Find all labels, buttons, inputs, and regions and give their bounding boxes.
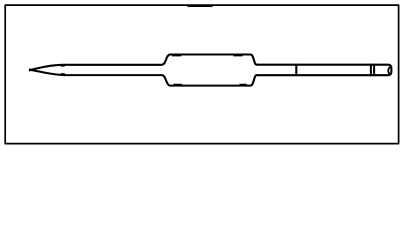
tick marks at cone/shaft junction bbox=[61, 66, 64, 74]
section divider line on rear shaft bbox=[295, 65, 297, 75]
body outline: shaft, grip bulge, rear shaft and rounded end cap bbox=[64, 55, 392, 86]
conical tip (bottom edge) bbox=[30, 70, 64, 75]
tip point bbox=[29, 69, 31, 70]
ferrule band line 2 bbox=[373, 65, 375, 75]
tick above grip bottom-right tangent bbox=[240, 83, 246, 85]
tick under grip top-right tangent bbox=[234, 55, 242, 57]
slight thickening artifact on top border bbox=[188, 5, 212, 7]
conical tip (top edge) bbox=[30, 65, 64, 70]
ferrule band line 1 bbox=[370, 65, 372, 75]
tick above grip bottom-left tangent bbox=[174, 83, 182, 85]
domed end inner arc bbox=[388, 67, 390, 74]
tick under grip top-left tangent bbox=[173, 55, 181, 57]
border frame bbox=[5, 5, 398, 144]
